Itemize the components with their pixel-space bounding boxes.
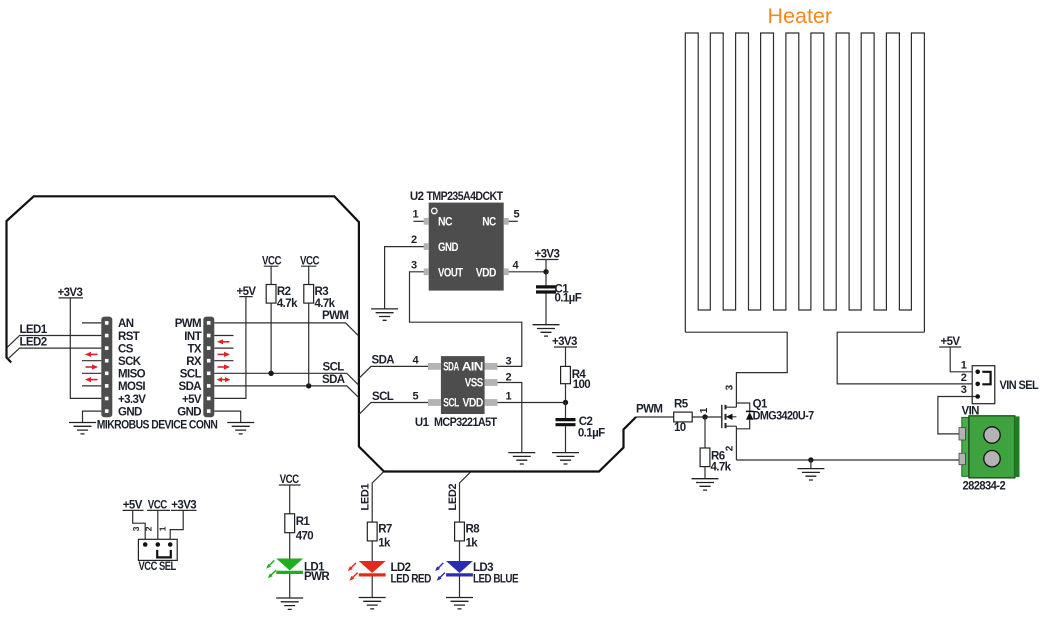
wire MISO stub <box>82 372 101 374</box>
svg-text:0.1µF: 0.1µF <box>555 293 582 305</box>
svg-text:+5V: +5V <box>182 394 202 406</box>
mikrobus header P1 pins <box>102 318 111 416</box>
U2 pin names <box>438 217 496 280</box>
svg-text:470: 470 <box>296 530 314 542</box>
svg-text:4.7k: 4.7k <box>711 462 732 474</box>
svg-text:C2: C2 <box>579 416 593 428</box>
svg-text:2: 2 <box>961 372 967 384</box>
wire Q1 source to terminal <box>736 459 959 461</box>
svg-text:VSS: VSS <box>465 378 484 390</box>
mikrobus header P1 pin labels <box>118 318 146 418</box>
svg-text:GND: GND <box>438 242 458 254</box>
node junction R3/SDA <box>306 383 311 388</box>
svg-text:LED1: LED1 <box>360 483 372 510</box>
svg-text:R8: R8 <box>466 524 481 536</box>
svg-text:VDD: VDD <box>476 267 496 279</box>
ground left header <box>69 423 96 434</box>
power VCC for R3 <box>300 255 319 284</box>
U1 pin stubs <box>428 363 498 406</box>
svg-text:SCL: SCL <box>323 361 345 373</box>
wire R4 to junction <box>565 384 567 403</box>
svg-text:PWM: PWM <box>175 318 201 330</box>
svg-text:1: 1 <box>413 209 419 221</box>
svg-text:SCK: SCK <box>118 356 142 368</box>
svg-text:MOSI: MOSI <box>118 381 145 393</box>
resistor R8 <box>455 522 481 550</box>
resistor R3 <box>304 285 336 311</box>
U1 pin names <box>443 362 483 410</box>
transistor Q1 DMG3420U-7 <box>722 399 814 461</box>
power +5V at VIN SEL <box>939 336 975 372</box>
svg-text:VOUT: VOUT <box>438 267 463 279</box>
U2 pin stubs <box>424 218 509 275</box>
svg-text:RST: RST <box>118 331 140 343</box>
svg-text:5: 5 <box>514 209 520 221</box>
wire C1 to ground <box>545 294 547 325</box>
svg-text:LED RED: LED RED <box>391 574 432 586</box>
wire LD1 to ground <box>289 574 291 598</box>
svg-text:VCC SEL: VCC SEL <box>139 561 177 573</box>
node junction R5/R6/gate <box>702 414 707 419</box>
svg-text:VCC: VCC <box>262 255 281 267</box>
connector VIN SEL <box>972 366 1038 404</box>
svg-text:Heater: Heater <box>768 4 833 28</box>
svg-text:LED1: LED1 <box>20 324 48 336</box>
resistor R1 <box>285 514 313 543</box>
svg-text:282834-2: 282834-2 <box>963 481 1006 493</box>
power +3V3 left <box>58 287 102 398</box>
svg-text:MIKROBUS DEVICE CONN: MIKROBUS DEVICE CONN <box>97 419 218 431</box>
svg-text:LED2: LED2 <box>447 483 459 510</box>
U1 pin2 wire to ground <box>498 372 522 453</box>
U2 pin 1 stub wire <box>413 209 424 222</box>
svg-text:CS: CS <box>118 343 134 355</box>
resistor R6 <box>700 448 732 474</box>
svg-text:+5V: +5V <box>941 336 961 348</box>
net label LED2 vertical <box>447 472 471 522</box>
U1 pin3 wire <box>506 355 512 367</box>
svg-text:TMP235A4DCKT: TMP235A4DCKT <box>427 191 504 203</box>
U2 pin 4 VDD wire <box>509 259 546 271</box>
svg-text:U1: U1 <box>415 417 430 429</box>
svg-text:U2: U2 <box>410 191 424 203</box>
wire C2 to ground <box>565 426 567 452</box>
svg-text:SCL: SCL <box>372 391 394 403</box>
wire R3 to SDA <box>308 303 310 386</box>
svg-text:10: 10 <box>674 422 686 434</box>
resistor R5 <box>674 399 693 435</box>
svg-text:SDA: SDA <box>179 381 202 393</box>
power VCC at R1 <box>279 474 301 514</box>
ground right header <box>227 423 254 434</box>
LED LD2 red <box>348 561 431 586</box>
LED LD1 green <box>266 559 330 584</box>
svg-text:LED BLUE: LED BLUE <box>473 574 519 586</box>
svg-text:0.1µF: 0.1µF <box>578 428 605 440</box>
wire heater right end to VIN SEL pin 2 <box>837 332 978 384</box>
wire LD2 to ground <box>371 577 373 598</box>
svg-text:Q1: Q1 <box>753 399 768 411</box>
svg-text:R7: R7 <box>378 524 392 536</box>
red arrow right TX <box>218 352 231 357</box>
U2 pin 2 wire to ground <box>385 234 424 309</box>
wire R8 to LD3 <box>459 541 461 561</box>
net label SDA into U1 <box>359 354 428 378</box>
svg-text:R1: R1 <box>296 516 311 528</box>
ground C1 <box>533 325 560 336</box>
ground source line <box>797 469 824 480</box>
wire SDA to outline <box>214 386 358 398</box>
wire R6 to ground <box>704 467 706 479</box>
net label SCL into U1 <box>359 391 428 415</box>
wire +3V3 to C1 <box>545 272 547 287</box>
svg-text:TX: TX <box>188 343 202 355</box>
red arrow left MOSI <box>85 377 98 382</box>
power VCC for R2 <box>262 255 281 284</box>
svg-text:VCC: VCC <box>300 255 319 267</box>
svg-text:1: 1 <box>506 391 512 403</box>
wire heater left end to Q1 drain <box>685 332 787 403</box>
svg-text:RX: RX <box>186 356 202 368</box>
svg-text:NC: NC <box>438 217 452 229</box>
ground LD1 <box>276 598 303 609</box>
svg-text:DMG3420U-7: DMG3420U-7 <box>753 410 814 422</box>
power +5V right header <box>214 286 256 399</box>
svg-text:MCP3221A5T: MCP3221A5T <box>434 417 497 429</box>
svg-text:SCL: SCL <box>443 398 459 410</box>
svg-text:NC: NC <box>482 217 496 229</box>
ground C2 <box>552 453 579 464</box>
svg-text:2: 2 <box>411 234 417 246</box>
svg-text:PWR: PWR <box>304 571 330 583</box>
mikrobus header P1 left column <box>101 317 112 418</box>
wire R5 to gate <box>692 416 722 418</box>
node junction VDD/R4/C2 <box>563 400 568 405</box>
svg-text:3: 3 <box>411 259 417 271</box>
svg-text:LED2: LED2 <box>20 337 47 349</box>
wire AN stub <box>82 322 101 324</box>
wire GND left header <box>83 411 102 422</box>
svg-text:+3V3: +3V3 <box>58 287 83 299</box>
resistor R2 <box>266 285 298 311</box>
red arrow right INT <box>217 339 230 344</box>
svg-text:AIN: AIN <box>462 362 483 374</box>
wire R1 to LD1 <box>289 533 291 559</box>
wire MOSI stub <box>82 385 101 387</box>
svg-text:VIN SEL: VIN SEL <box>1000 380 1039 392</box>
svg-text:LD3: LD3 <box>473 562 493 574</box>
svg-text:MISO: MISO <box>118 369 146 381</box>
mikrobus header P2 right column <box>203 317 214 418</box>
svg-text:SDA: SDA <box>372 354 395 366</box>
svg-text:3: 3 <box>506 355 512 367</box>
U2 pin 5 stub wire <box>509 209 520 222</box>
net label LED1 vertical <box>360 472 384 522</box>
svg-text:4.7k: 4.7k <box>315 298 336 310</box>
power +3V3 at U2 <box>535 249 560 272</box>
svg-text:5: 5 <box>413 391 419 403</box>
svg-text:LD2: LD2 <box>391 562 411 574</box>
wire VIN SEL pin3 to terminal <box>938 397 976 434</box>
svg-text:SDA: SDA <box>443 362 459 374</box>
node LED2 <box>7 337 101 360</box>
resistor R4 <box>561 366 591 390</box>
wire PWM pin to outline <box>214 323 358 336</box>
node junction R2/SCL <box>268 371 273 376</box>
svg-text:1: 1 <box>961 360 967 372</box>
svg-text:R5: R5 <box>674 399 689 411</box>
svg-text:AN: AN <box>118 318 134 330</box>
wire junction to ground <box>810 460 812 469</box>
wire SCK stub <box>82 360 101 362</box>
svg-text:GND: GND <box>118 406 142 418</box>
connector VCC SEL <box>123 500 197 573</box>
svg-text:PWM: PWM <box>322 310 348 322</box>
ground LD3 <box>446 598 473 609</box>
node LED1 <box>7 324 101 347</box>
LED LD3 blue <box>435 561 519 586</box>
red arrow left MISO <box>86 364 99 369</box>
heater element <box>685 33 924 332</box>
svg-text:100: 100 <box>573 379 591 391</box>
capacitor C1 <box>536 283 582 304</box>
wire TX stub <box>214 347 233 349</box>
node junction VDD/+3V3 <box>543 269 548 274</box>
wire LD3 to ground <box>459 577 461 598</box>
svg-text:4.7k: 4.7k <box>277 298 298 310</box>
red arrow left SCK <box>85 352 98 357</box>
U2 pin 3 VOUT wire to U1 AIN <box>410 259 522 366</box>
svg-text:+3.3V: +3.3V <box>118 394 146 406</box>
svg-text:INT: INT <box>184 331 201 343</box>
mikrobus header P2 pins <box>204 318 213 416</box>
svg-text:R3: R3 <box>315 286 329 298</box>
mikrobus header P2 pin labels <box>175 318 202 418</box>
power +3V3 at R4 <box>552 336 577 366</box>
capacitor C2 <box>556 416 606 440</box>
svg-text:3: 3 <box>961 384 967 396</box>
ground U2 pin2 <box>371 309 398 320</box>
IC U2 TMP235A4DCKT body <box>410 191 504 290</box>
svg-text:1k: 1k <box>466 538 479 550</box>
svg-text:VDD: VDD <box>463 398 484 410</box>
svg-text:SDA: SDA <box>322 374 345 386</box>
wire junction to C2 <box>565 403 567 420</box>
resistor R7 <box>367 522 392 550</box>
U1 pin1 VDD wire <box>498 391 566 403</box>
board outline <box>7 196 637 471</box>
svg-text:2: 2 <box>506 372 512 384</box>
terminal block 282834-2 <box>959 416 1020 493</box>
wire R2 to SCL <box>270 303 272 373</box>
net label PWM at R5 <box>636 403 674 417</box>
ground LD2 <box>359 598 386 609</box>
svg-text:SCL: SCL <box>180 369 202 381</box>
wire R7 to LD2 <box>371 541 373 561</box>
red arrow right RX <box>218 364 231 369</box>
svg-text:PWM: PWM <box>636 403 662 415</box>
wire RX stub <box>214 360 233 362</box>
IC U1 MCP3221A5T body <box>415 356 497 429</box>
wire GND right header <box>214 411 240 422</box>
wire INT stub <box>214 335 233 337</box>
svg-text:R6: R6 <box>711 450 725 462</box>
svg-text:GND: GND <box>177 406 201 418</box>
ground U1 VSS <box>508 453 535 464</box>
svg-text:R2: R2 <box>277 286 291 298</box>
node junction source/ground <box>808 457 813 462</box>
svg-text:1k: 1k <box>378 538 391 550</box>
ground R6 <box>692 479 719 490</box>
red arrow right SDA bidirectional <box>217 377 231 382</box>
wire SCL to outline <box>214 373 358 385</box>
wire junction to R6 <box>704 417 706 448</box>
